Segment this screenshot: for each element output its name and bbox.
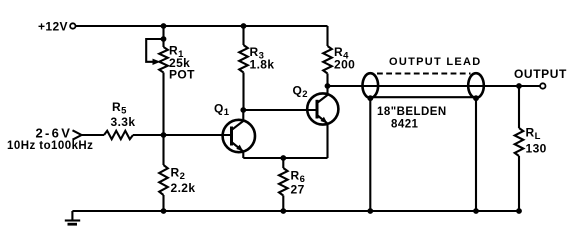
wire R1 top [162, 26, 164, 47]
wire Q1 collector to Q2 base [243, 109, 317, 111]
svg-text:R2: R2 [171, 166, 186, 183]
ground [71, 211, 73, 220]
node output RL [516, 83, 522, 89]
svg-text:Q1: Q1 [214, 102, 230, 119]
svg-text:Q2: Q2 [293, 84, 308, 101]
resistor R4 [326, 26, 328, 46]
node input R2 [161, 132, 167, 138]
node R6 ground [280, 208, 286, 214]
wire +12V top rail [76, 25, 328, 27]
node emitters R6 [280, 155, 286, 161]
wire bottom ground rail [72, 210, 519, 212]
node top rail R1 [161, 23, 167, 29]
node shield left ground [367, 208, 373, 214]
node R2 ground [161, 208, 167, 214]
node top rail R3 [241, 23, 247, 29]
node shield left [367, 95, 373, 101]
transistor Q1 [223, 120, 255, 152]
svg-text:1.8k: 1.8k [250, 58, 275, 72]
coax right ellipse [468, 73, 484, 98]
resistor R3 [242, 26, 244, 45]
resistor RL [518, 86, 520, 128]
wire shield left to ground [369, 98, 371, 211]
svg-text:3.3k: 3.3k [111, 115, 136, 129]
svg-text:RL: RL [526, 126, 541, 143]
wire R5 to Q1 base [133, 134, 232, 136]
svg-text:18"BELDEN: 18"BELDEN [377, 106, 447, 118]
transistor Q2 [307, 93, 338, 124]
node shield right [473, 95, 479, 101]
svg-text:OUTPUT LEAD: OUTPUT LEAD [389, 56, 482, 68]
svg-text:2-6V: 2-6V [36, 126, 73, 141]
svg-text:10Hz to100kHz: 10Hz to100kHz [7, 140, 93, 152]
coax shield top dashed [377, 72, 471, 74]
svg-text:OUTPUT: OUTPUT [514, 67, 567, 81]
svg-text:27: 27 [291, 183, 305, 197]
node R1 wiper tie [161, 36, 167, 42]
potentiometer R1 [159, 47, 168, 73]
coax left ellipse [363, 73, 379, 98]
wire emitter bus [243, 157, 327, 159]
node Q1 collector R3 [240, 107, 246, 113]
resistor R6 [282, 158, 284, 168]
resistor R5 [104, 131, 133, 139]
wire shield right to ground [475, 98, 477, 211]
svg-text:POT: POT [169, 68, 195, 82]
wire R1 bottom [162, 73, 164, 136]
resistor R2 [162, 135, 164, 165]
svg-text:130: 130 [526, 142, 547, 156]
wire output center conductor [328, 85, 544, 87]
node RL ground [516, 208, 522, 214]
svg-text:8421: 8421 [391, 119, 419, 131]
wire input to R5 [82, 134, 105, 136]
svg-text:+12V: +12V [38, 20, 68, 34]
terminal input arrow [73, 130, 82, 139]
svg-text:2.2k: 2.2k [171, 181, 196, 195]
node Q2 collector R4 output [325, 83, 331, 89]
node shield right ground [473, 208, 479, 214]
coax shield bottom [370, 96, 476, 98]
terminal +12V [70, 23, 75, 28]
terminal output [540, 83, 545, 88]
svg-text:200: 200 [334, 58, 355, 72]
